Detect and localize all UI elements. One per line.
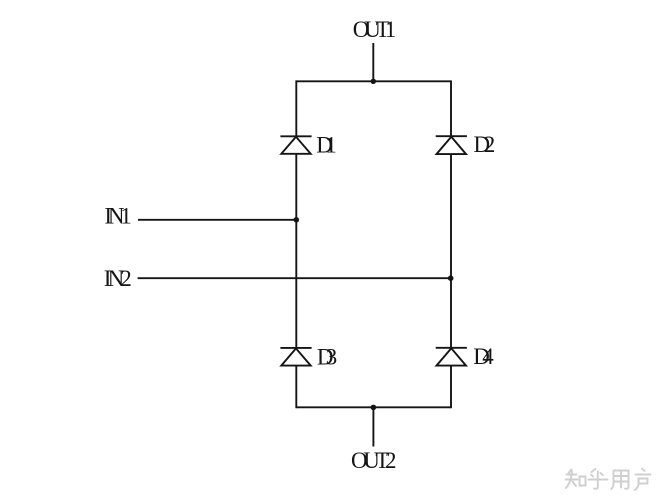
wire right branch upper: [450, 80, 452, 136]
node IN2 junction: [448, 275, 454, 281]
node IN1 junction: [294, 217, 300, 223]
watermark zhihu user: [566, 469, 651, 491]
wire left branch middle: [295, 154, 297, 348]
svg-text:OUT2: OUT2: [351, 448, 397, 473]
wire top rail: [296, 80, 451, 82]
svg-text:IN1: IN1: [104, 203, 131, 228]
svg-text:OUT1: OUT1: [353, 17, 396, 42]
diode D3: [280, 348, 311, 366]
node OUT2 junction: [371, 405, 377, 411]
watermark char yong: [611, 471, 628, 490]
node OUT1 junction: [371, 79, 376, 84]
diode D2: [436, 136, 467, 154]
watermark char zhi: [566, 470, 586, 489]
wire left branch lower: [295, 366, 297, 409]
wire right branch middle: [450, 154, 452, 348]
svg-text:IN2: IN2: [104, 266, 132, 291]
wire bottom rail: [296, 406, 451, 408]
wire right branch lower: [450, 366, 452, 409]
diode D1: [280, 136, 311, 154]
svg-text:D1: D1: [316, 132, 337, 157]
diode D4: [436, 348, 467, 366]
svg-text:D2: D2: [474, 132, 496, 157]
svg-text:D3: D3: [317, 345, 337, 370]
watermark char hu: [589, 469, 608, 489]
wire IN1 lead: [138, 219, 296, 221]
wire IN2 lead: [138, 277, 451, 279]
wire left branch upper: [295, 80, 297, 136]
svg-text:D4: D4: [473, 344, 494, 369]
wire OUT1 stem: [372, 43, 374, 81]
wire OUT2 stem: [372, 407, 374, 446]
watermark char hu2: [635, 469, 651, 491]
